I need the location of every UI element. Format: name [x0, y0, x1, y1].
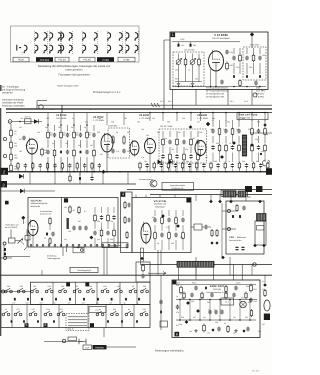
corner marker 1 — [171, 33, 176, 38]
svg-text:8: 8 — [176, 332, 178, 336]
decoupling element 7 — [181, 162, 183, 172]
electrolytic bank 2 — [214, 310, 217, 315]
svg-text:2k2: 2k2 — [192, 137, 195, 140]
rail feed wire r — [149, 112, 151, 121]
heater tick — [61, 106, 63, 113]
inter-rail wire — [127, 172, 129, 184]
psu top elements — [194, 285, 237, 293]
svg-text:12k: 12k — [12, 301, 15, 304]
cable wire 4 — [68, 325, 87, 327]
svg-text:10n: 10n — [164, 137, 167, 140]
rail feed wire — [106, 113, 108, 125]
decoupling element 6 — [174, 163, 177, 172]
X300 element 5 — [237, 120, 240, 162]
svg-text:25µ: 25µ — [255, 138, 258, 141]
inter-rail wire — [79, 172, 81, 184]
rail junction dot — [60, 171, 62, 173]
svg-text:100: 100 — [82, 301, 85, 304]
svg-text:1n: 1n — [72, 117, 74, 120]
coupling capacitor C27 — [25, 119, 32, 124]
svg-text:b6: b6 — [128, 308, 130, 311]
svg-text:68k: 68k — [261, 150, 264, 153]
rail feed wire — [123, 113, 125, 125]
svg-text:2k2: 2k2 — [62, 134, 65, 137]
rail feed wire r — [176, 112, 178, 121]
svg-text:6,5 MHz: 6,5 MHz — [256, 96, 264, 99]
type label block — [93, 345, 107, 349]
left decoupling element 11 — [91, 162, 93, 172]
rail junction dot — [190, 171, 192, 173]
wire top rail — [172, 41, 240, 43]
svg-text:R88: R88 — [230, 64, 233, 67]
resistor R2 — [10, 141, 13, 150]
svg-text:25µ: 25µ — [75, 134, 78, 137]
wire drop b — [195, 90, 197, 106]
rail junction dot — [47, 171, 49, 173]
rectifier tube — [264, 300, 270, 311]
rail arrow — [148, 272, 166, 275]
psu element m1 — [183, 292, 185, 300]
left decoupling element 5 — [46, 162, 48, 172]
svg-text:mit Original-Zeichnung: mit Original-Zeichnung — [2, 88, 26, 91]
filter coil La — [112, 135, 114, 144]
push-button switch A8 — [101, 288, 109, 293]
svg-text:4k7: 4k7 — [193, 316, 196, 319]
edge marker 2 — [0, 168, 8, 175]
rail link wire — [41, 270, 43, 275]
svg-text:2k2: 2k2 — [262, 323, 265, 326]
svg-text:Ratio-Filter: Ratio-Filter — [250, 43, 260, 46]
svg-text:V7b ECC81: V7b ECC81 — [154, 200, 167, 203]
psu vertical wire — [249, 300, 251, 321]
rail feed wire r — [162, 112, 164, 121]
anode resistor — [41, 148, 44, 157]
svg-text:50p: 50p — [242, 160, 245, 163]
svg-text:Bildmuster-: Bildmuster- — [237, 236, 247, 239]
svg-text:0,1: 0,1 — [262, 280, 264, 283]
svg-text:b: b — [130, 108, 131, 111]
left decoupling element 6 — [53, 163, 56, 171]
svg-text:47k: 47k — [141, 156, 144, 159]
rail junction dot — [86, 171, 88, 173]
svg-text:Tastenaggregat: Tastenaggregat — [108, 244, 122, 247]
ratio detector dashed box — [243, 47, 266, 80]
X300 element 8 — [264, 120, 267, 162]
svg-text:6: 6 — [45, 323, 47, 327]
svg-text:1: 1 — [172, 33, 174, 37]
svg-text:C35: C35 — [117, 285, 120, 288]
mixer element 4 — [112, 207, 115, 247]
svg-text:25µ: 25µ — [258, 330, 261, 333]
left decoupling element 12 — [98, 163, 101, 171]
svg-text:b5: b5 — [132, 285, 134, 288]
svg-text:4k7: 4k7 — [71, 126, 74, 129]
bank B contact 7 — [136, 320, 138, 322]
filter cap Ca — [111, 149, 114, 154]
psu feed wires — [178, 265, 242, 281]
rail junction diamond — [102, 170, 106, 174]
mixer labels scatter — [64, 206, 113, 241]
grid capacitor — [22, 136, 25, 141]
FM filter element 4 — [182, 131, 185, 172]
svg-text:Kontrastregelung: Kontrastregelung — [139, 178, 153, 181]
link capacitor — [73, 248, 84, 253]
rail feed wire r — [212, 112, 214, 121]
svg-text:R342: R342 — [246, 285, 250, 288]
mixer left cluster — [44, 232, 55, 245]
input wire — [12, 121, 42, 123]
bank divider — [52, 282, 54, 304]
svg-text:12k: 12k — [37, 131, 40, 134]
svg-text:50p: 50p — [236, 128, 239, 131]
tube V3 envelope — [27, 138, 38, 156]
svg-text:b5: b5 — [76, 285, 78, 288]
link terminal — [81, 249, 84, 252]
left decoupling element 7 — [61, 162, 63, 172]
svg-text:V5 EF80: V5 EF80 — [139, 114, 150, 117]
FM filter element 6 — [196, 131, 199, 172]
tube base diagram B3 — [49, 31, 61, 55]
svg-text:2. ZF-Stufe: 2. ZF-Stufe — [197, 117, 209, 120]
node diamond top — [250, 32, 254, 36]
compartment element 2 — [128, 203, 131, 208]
tube-socket chart box — [11, 26, 140, 62]
bank marker b — [85, 283, 89, 287]
svg-text:4k7: 4k7 — [78, 220, 81, 223]
svg-text:100: 100 — [182, 117, 185, 120]
svg-text:25µ: 25µ — [85, 120, 88, 123]
push-button switch A3 — [31, 288, 39, 293]
svg-text:Empfindlichkeit: Empfindlichkeit — [40, 210, 53, 213]
bank contact 2 — [26, 298, 29, 305]
svg-text:100: 100 — [19, 150, 22, 153]
right column wire — [264, 275, 266, 283]
svg-text:330: 330 — [214, 160, 217, 163]
psu cap C301 — [176, 305, 179, 310]
connector label GAP — [83, 345, 92, 349]
cable wire 3 — [68, 322, 87, 324]
psu dots — [179, 299, 251, 321]
psu vertical wire — [209, 300, 211, 321]
push-button switch B6 — [96, 311, 104, 316]
svg-text:C35: C35 — [61, 285, 64, 288]
supply rail lower — [6, 112, 272, 114]
osc element 1 — [153, 210, 156, 250]
diamond X300 b — [250, 143, 254, 147]
mixer diamond — [90, 236, 94, 240]
svg-text:5: 5 — [26, 323, 28, 327]
tube V3 pins — [31, 156, 33, 172]
rail link wire — [157, 265, 159, 276]
filter coil Lb — [123, 135, 125, 144]
feed wire left of box — [163, 40, 165, 109]
svg-text:1n: 1n — [14, 133, 16, 136]
rail feed wire r — [251, 112, 253, 121]
box feed wire — [159, 195, 161, 198]
svg-text:1n: 1n — [224, 322, 226, 325]
transistor T1 — [150, 180, 157, 187]
X300 element 3 — [224, 120, 227, 162]
bank B contact 5 — [107, 320, 109, 322]
push-button switch A2 — [17, 288, 25, 293]
row A terminal — [2, 290, 5, 293]
sweep wire 1 — [222, 210, 236, 212]
push-button switch A9 — [115, 288, 123, 293]
bank divider B — [26, 305, 28, 328]
bank B contact 3 — [37, 320, 39, 322]
diamond X300 d — [263, 123, 266, 126]
corner marker mixer — [64, 198, 68, 202]
rail junction dot — [162, 171, 164, 173]
junction in1 — [19, 121, 21, 123]
box bottom bus — [172, 86, 266, 88]
svg-text:C27 1n: C27 1n — [25, 116, 31, 119]
IF diode b — [169, 160, 173, 165]
bank contact 6 — [82, 298, 85, 305]
decoupling element 11 — [210, 162, 212, 172]
FM filter element 5 — [189, 131, 192, 172]
svg-text:100: 100 — [45, 126, 48, 129]
link box — [194, 224, 202, 230]
resistor R1 — [10, 129, 13, 138]
ratio detector element 5 — [258, 48, 261, 78]
svg-text:C7: C7 — [44, 237, 46, 240]
bank contact 8 — [109, 298, 112, 305]
ratio detector element 4 — [252, 48, 255, 74]
left decoupling element 1 — [17, 162, 19, 172]
svg-text:PCF801: PCF801 — [40, 59, 50, 62]
svg-text:Gegentaktendstufe: Gegentaktendstufe — [170, 184, 185, 187]
svg-text:5p: 5p — [137, 301, 139, 304]
psu diamond 1 — [186, 301, 190, 305]
sweep terminal 2 — [228, 228, 231, 231]
svg-text:PC92: PC92 — [18, 59, 25, 62]
psu vertical wire — [179, 300, 181, 321]
diamond X300 a — [232, 141, 236, 145]
bank divider — [74, 282, 76, 304]
tuner terminal — [3, 242, 6, 245]
svg-text:Ton-ZF-Verstärker: Ton-ZF-Verstärker — [212, 37, 230, 40]
svg-text:10,7 MHz: 10,7 MHz — [256, 90, 265, 93]
svg-text:Tastenaggregat: Tastenaggregat — [77, 269, 91, 272]
filter trimmer T2 — [190, 54, 196, 82]
rail junction dot — [93, 171, 95, 173]
rail junction dot — [149, 171, 151, 173]
rail link wire — [195, 265, 197, 276]
choke bracket — [248, 191, 251, 197]
svg-text:PCL84: PCL84 — [58, 59, 66, 62]
svg-text:4k7: 4k7 — [88, 134, 91, 137]
svg-text:C48: C48 — [142, 308, 145, 311]
psu left outside glyphs — [159, 300, 162, 314]
column element 2 — [141, 274, 144, 279]
mixer pin contacts — [30, 244, 116, 246]
svg-text:1n: 1n — [59, 120, 61, 123]
svg-text:330: 330 — [98, 117, 101, 120]
psu element m6 — [232, 293, 235, 298]
decoupling element 2 — [145, 163, 148, 172]
svg-text:4k7: 4k7 — [197, 120, 200, 123]
svg-text:500: 500 — [191, 300, 194, 303]
svg-text:C44: C44 — [59, 308, 62, 311]
svg-text:500: 500 — [257, 120, 260, 123]
decoupling element 9 — [196, 162, 198, 172]
svg-text:12k: 12k — [25, 144, 28, 147]
box feed wire — [245, 195, 247, 201]
svg-text:500: 500 — [171, 242, 174, 245]
socket label PY88 — [97, 57, 114, 62]
svg-text:68k: 68k — [152, 216, 155, 219]
mixer drop wires — [62, 247, 64, 256]
psu corner marker top — [172, 280, 176, 284]
svg-text:0,1: 0,1 — [84, 210, 87, 213]
X300 transformer winding — [242, 135, 246, 156]
svg-text:4k7: 4k7 — [233, 332, 236, 335]
compartment element 5 — [126, 231, 128, 239]
svg-text:Tastenaggregat: Tastenaggregat — [47, 257, 61, 260]
osc element 4 — [174, 210, 177, 250]
under-rail glyph a — [69, 172, 71, 182]
svg-text:Oszillator und: Oszillator und — [154, 203, 166, 206]
psu element m2 — [190, 293, 193, 298]
IF element 5 — [73, 124, 76, 172]
decoupling element 12 — [216, 163, 219, 172]
bank divider B — [133, 305, 135, 328]
svg-text:Nur ZF-Filter: Nur ZF-Filter — [184, 49, 195, 52]
push-button switch B5 — [57, 311, 65, 316]
tube V5 pins — [149, 155, 151, 172]
svg-text:50p: 50p — [179, 323, 182, 326]
socket label PCF801 — [36, 57, 53, 62]
filter bottom wire — [175, 81, 202, 83]
rail feed wire r — [200, 112, 202, 121]
svg-text:1. ZF-Stufe: 1. ZF-Stufe — [139, 117, 151, 120]
svg-text:10n: 10n — [68, 230, 71, 233]
push-button switch B9 — [140, 311, 148, 316]
svg-text:V 10 EF80: V 10 EF80 — [214, 33, 228, 37]
svg-text:500: 500 — [223, 297, 226, 300]
scattered value labels left — [19, 126, 130, 156]
link resistor a — [211, 229, 213, 237]
svg-text:Einstellung: Einstellung — [47, 255, 56, 258]
inter-rail wire — [54, 172, 56, 184]
svg-text:2k2: 2k2 — [146, 134, 149, 137]
feedthrough circle — [39, 105, 43, 109]
supply rail +U upper — [37, 104, 272, 106]
svg-text:2k2: 2k2 — [241, 297, 244, 300]
X300 element 4 — [231, 120, 234, 162]
rail link wire — [251, 265, 253, 276]
svg-text:C94: C94 — [262, 54, 265, 57]
bank divider B — [105, 305, 107, 328]
IF element 7 — [85, 124, 88, 172]
bank divider B — [40, 305, 42, 328]
psu resistor R301 — [180, 286, 183, 295]
svg-text:500: 500 — [180, 236, 183, 239]
column element 1 — [142, 264, 145, 273]
svg-text:330: 330 — [167, 120, 170, 123]
svg-text:100: 100 — [215, 321, 218, 324]
svg-text:4: 4 — [122, 193, 124, 197]
decoupling element 14 — [231, 163, 234, 172]
svg-text:C92: C92 — [236, 66, 239, 69]
link row wire — [44, 341, 83, 343]
svg-text:DY86: DY86 — [124, 59, 131, 62]
svg-text:1n: 1n — [176, 295, 178, 298]
tuner bottom wire — [4, 255, 30, 257]
heater rail thick — [6, 108, 272, 110]
svg-text:ENSION: ENSION — [213, 288, 221, 291]
psu ground 1 — [194, 329, 198, 332]
rail link wire — [229, 265, 231, 276]
rail junction dot — [119, 171, 121, 173]
compartment element 4 — [128, 218, 131, 223]
control label box 3 — [221, 191, 236, 197]
tube V10 envelope — [209, 50, 224, 73]
svg-text:500: 500 — [14, 157, 17, 160]
svg-text:47k: 47k — [176, 311, 179, 314]
svg-text:der ANTENNE: der ANTENNE — [5, 226, 18, 229]
svg-text:2k2: 2k2 — [245, 316, 248, 319]
filter dashed box C23 — [108, 128, 130, 158]
svg-text:561 022: 561 022 — [252, 370, 260, 373]
control label box — [162, 182, 194, 190]
scan edge line — [0, 108, 2, 336]
filter ground a — [177, 82, 181, 85]
svg-text:5p: 5p — [52, 142, 54, 145]
svg-text:C346: C346 — [176, 282, 180, 285]
svg-text:FM 10,7 MHz: FM 10,7 MHz — [160, 125, 172, 128]
tuner blob b — [4, 253, 6, 256]
svg-text:Gedruckte Schaltung:: Gedruckte Schaltung: — [2, 99, 24, 102]
sweep box T303 — [226, 201, 264, 254]
psu left labels — [176, 284, 179, 327]
svg-text:unten gesehen: unten gesehen — [65, 69, 83, 72]
potentiometer dark bar — [67, 218, 69, 229]
svg-text:100: 100 — [137, 120, 140, 123]
svg-text:Pl. 7: Pl. 7 — [96, 309, 100, 312]
filter ground b — [191, 82, 195, 85]
svg-text:Osz.-Stufe: Osz.-Stufe — [56, 117, 67, 120]
box feed wire — [145, 195, 147, 198]
svg-text:C42: C42 — [113, 308, 116, 311]
under-rail glyph b — [79, 172, 81, 180]
mixer right res pair — [69, 205, 80, 214]
decoupling element 18 — [259, 163, 262, 172]
svg-text:68k: 68k — [157, 131, 160, 134]
svg-text:68k: 68k — [186, 160, 189, 163]
svg-text:Änderung vorbehalten: Änderung vorbehalten — [2, 104, 25, 107]
junction diamond fm — [189, 125, 193, 129]
svg-text:4k7: 4k7 — [19, 138, 22, 141]
sweep blob a — [232, 215, 234, 218]
tube base diagram B6 — [107, 31, 123, 55]
svg-text:R93: R93 — [249, 66, 252, 69]
svg-text:25µ: 25µ — [64, 206, 67, 209]
electrolytic bank 3 — [220, 310, 223, 315]
link dot — [77, 247, 79, 249]
box feed wire — [210, 195, 212, 201]
svg-text:50p: 50p — [181, 297, 184, 300]
cable drop 3 — [229, 257, 231, 265]
psu inner right column — [249, 284, 256, 317]
IF element 8 — [92, 125, 95, 173]
svg-text:500: 500 — [181, 316, 184, 319]
wire drop a — [172, 90, 174, 110]
push-button switch A4 — [45, 288, 53, 293]
power supply box — [172, 280, 260, 338]
rail junction dot — [245, 171, 247, 173]
